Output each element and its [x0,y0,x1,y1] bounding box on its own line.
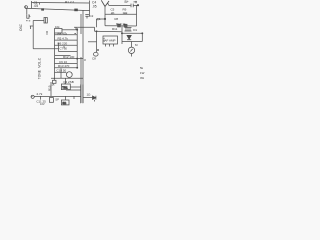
wire to diode D3 [83,97,92,99]
component blob on H2 [41,8,44,10]
tick left of rails [74,33,76,35]
wire jog x94.5 [94,27,96,31]
svg-text:OSC: OSC [19,23,23,31]
svg-text:R4 47k: R4 47k [58,31,68,35]
wire jog down [58,43,60,52]
transformer T1 primary verticals [81,85,83,104]
wire H y78.3 [51,77,83,79]
wire tick below bus x40.5 [40,96,42,99]
wire H y5.4 [109,4,131,6]
wire Q1 base vertical [104,7,106,26]
svg-text:10V: 10V [40,102,45,106]
svg-text:1W: 1W [140,71,145,75]
transistor Q3 circle [66,72,72,78]
diode D1 [125,28,132,32]
wire left vertical VC [32,21,34,49]
svg-text:R8: R8 [115,17,119,21]
wire box top feed [65,78,67,84]
diode D2 [127,35,131,39]
inductor L1 left [26,8,28,14]
svg-text:D1: D1 [133,28,137,32]
wire rung y63.5 [55,63,78,65]
capacitor C8 polarized [94,52,99,56]
diode D4 on H4 [124,24,128,27]
svg-text:R6 220: R6 220 [58,42,68,46]
svg-text:TONE: TONE [38,69,42,79]
tick mark near C1 text [38,3,40,5]
wire H4 y25.7 [105,25,137,27]
wire rung y40.1 [55,39,78,41]
meter M1 circle [128,47,134,53]
wire rung y34.8 [55,34,78,36]
svg-text:R10 1k: R10 1k [116,22,126,26]
svg-text:C10 50: C10 50 [57,69,67,73]
module U1 box [103,36,118,44]
wire ladder right vertical [76,28,78,68]
wire H3a y14.3 [105,13,137,15]
wire tick x76 [75,27,77,30]
resistor R10 on H4 [117,24,121,27]
junction blob on H2 [74,9,78,12]
node joint to V rail [30,21,33,30]
wire H y31.2 [95,30,122,33]
wire diode tail [94,100,96,102]
module pins [106,44,114,47]
wire tick x74 [73,96,75,99]
svg-text:TR1: TR1 [62,85,68,89]
wire V at input cap [31,1,33,8]
wire tick on H3a [112,13,125,15]
node input terminal J1 [24,6,27,9]
wire H y27.3 step [74,26,95,28]
wire meter bottom tick [131,54,133,57]
wire rung y29.8 [62,29,78,31]
driver box T2 [61,84,70,90]
component box below bus [49,98,53,103]
wire rung y67.7 [55,67,78,69]
node dot base [104,18,105,19]
wire long vertical rail B [80,14,82,103]
wire rung y45.2 with tick [55,45,78,48]
svg-text:Q4 2SB: Q4 2SB [63,80,74,84]
wire small vertical x61 [60,68,62,78]
svg-text:4.7k: 4.7k [36,92,42,96]
wire short stub y41.8 [88,41,97,43]
wire long vertical rail A [82,11,84,104]
node dots ladder [77,29,78,30]
svg-text:8Ω: 8Ω [63,101,67,105]
node dot [137,5,138,6]
resistor R15 vertical [50,82,52,96]
wire rung y72.3 [55,71,67,73]
capacitor C2 near rail [85,15,89,19]
svg-text:10k: 10k [55,25,60,29]
svg-text:Q1: Q1 [97,17,101,21]
capacitor C6 [131,4,138,8]
wire main bottom bus y96.4 [34,95,81,97]
svg-text:C7 30: C7 30 [60,47,68,51]
crystal Y1 stub [33,20,44,22]
wire rung y58.6 [55,55,84,58]
svg-text:R12 100: R12 100 [63,55,75,59]
wire V x142.3 [141,33,143,41]
wire H y90 [66,89,81,91]
diode D3 output [93,96,96,100]
wire H y87 [70,86,80,88]
wire H y33.3 [122,32,142,34]
node dot H4 right [121,33,122,34]
node dot H right2 [142,33,143,34]
wire H2 bus [25,8,90,10]
wire H3b y19 [97,18,106,20]
speaker box [61,100,69,105]
wire H y51.5 [59,51,78,53]
svg-text:C8: C8 [92,57,96,61]
wire H y41.5 [122,41,142,43]
wire V drop from H1 [89,1,91,17]
wire V x96.5 upper [96,19,98,27]
wire V x122 [121,26,123,44]
svg-text:.05: .05 [92,5,97,9]
svg-text:R11: R11 [112,27,118,31]
wire ladder left vertical [54,33,56,79]
svg-text:AF AMP: AF AMP [105,39,116,43]
svg-text:.05: .05 [34,4,39,8]
wire top bus H1 [32,2,90,5]
svg-text:.01: .01 [111,11,116,15]
svg-text:10k: 10k [123,11,128,15]
svg-text:R1 2.2: R1 2.2 [65,0,74,4]
node jack J2 [31,95,34,98]
transistor Q1 top arms [101,0,109,6]
svg-text:VOL.C: VOL.C [38,57,42,68]
svg-text:R13 470: R13 470 [58,64,70,68]
svg-text:SP: SP [55,98,59,102]
B+ terminal arrow [134,1,138,3]
node dot v96.5 top [96,31,97,32]
wire V x65.5 below [65,96,67,100]
wire V x136.5 [136,5,138,26]
svg-text:R5 4.7k: R5 4.7k [58,37,69,41]
resistor R14 below [53,78,55,80]
wire V x96.5 lower [96,32,98,53]
wire H mid-left at y49 [33,48,58,50]
potentiometer VR1 box [55,29,63,34]
wire V to meter [131,42,133,48]
svg-text:B+: B+ [125,0,129,4]
svg-text:C2: C2 [90,14,94,18]
